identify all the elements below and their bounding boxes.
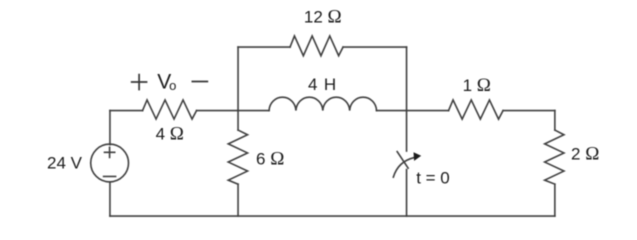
wire 1 ohm to right branch [503,110,555,112]
wire left branch lower segment [109,182,111,216]
svg-text:12 Ω: 12 Ω [304,6,342,27]
resistor 6 ohm zigzag vertical [228,130,247,184]
resistor 1 ohm zigzag [449,100,504,119]
resistor 4 ohm zigzag [143,100,197,119]
wire top branch right [343,46,407,48]
wire node A down to 6 ohm [237,111,239,131]
wire bottom bus [110,215,555,217]
resistor 12 ohm zigzag [290,36,343,56]
wire 2 ohm to bottom bus [554,184,556,216]
svg-text:2 Ω: 2 Ω [571,143,599,164]
wire right branch upper [554,111,556,131]
wire node B down to switch [406,111,408,152]
wire node A vertical up to 12 ohm branch [237,47,239,111]
svg-text:6 Ω: 6 Ω [256,149,284,170]
label minus of Vo [192,81,209,83]
voltage source plus sign [105,147,115,157]
switch arrowhead [414,152,422,161]
wire top branch left [238,46,290,48]
svg-text:t = 0: t = 0 [416,169,450,188]
svg-text:4 H: 4 H [308,75,337,94]
svg-text:4 Ω: 4 Ω [156,123,184,144]
wire left branch upper segment [109,111,111,145]
wire switch to bottom bus [406,170,408,217]
voltage source 24 V circle [91,144,129,182]
svg-text:24 V: 24 V [47,153,83,172]
resistor 2 ohm zigzag vertical [545,130,564,184]
wire top branch right vertical down [406,47,408,111]
wire main left (source to resistor R 4ohm) [110,110,143,112]
voltage source minus sign [104,175,116,177]
inductor 4 H [269,97,377,110]
svg-text:1 Ω: 1 Ω [463,75,491,96]
wire 6 ohm to bottom bus [237,184,239,216]
switch arrow arc [393,158,414,178]
wire from 4 ohm to node A [197,110,269,112]
label plus of Vo [131,74,148,91]
svg-text:Vo: Vo [157,71,176,94]
switch blade [397,152,408,169]
wire inductor to node B [377,110,449,112]
